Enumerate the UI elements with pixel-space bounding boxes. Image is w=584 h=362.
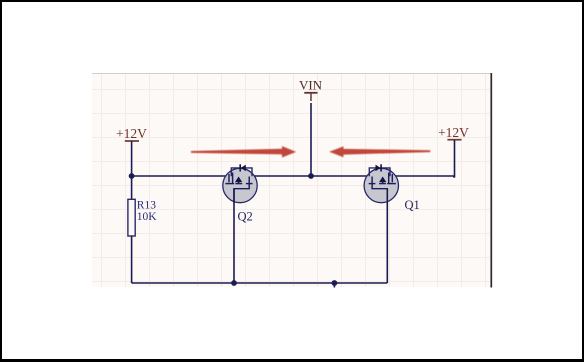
Q1 source internal lead bbox=[372, 184, 387, 203]
transistor Q1 bbox=[364, 164, 398, 203]
resistor R13 body bbox=[128, 199, 135, 236]
wire VIN vertical bbox=[310, 103, 312, 176]
Q2 body circle bbox=[223, 168, 257, 202]
transistor Q2 bbox=[223, 164, 257, 203]
sheet top edge line bbox=[92, 73, 491, 75]
outer border frame bbox=[0, 0, 584, 2]
svg-text:+12V: +12V bbox=[438, 125, 469, 140]
wire R13 top lead bbox=[131, 176, 133, 200]
Q2 substrate arrow stem bbox=[238, 182, 240, 184]
Q2 body-diode bar bbox=[239, 164, 241, 171]
Q2 source internal lead bbox=[234, 184, 249, 203]
svg-text:VIN: VIN bbox=[299, 78, 323, 93]
Q1 terminal foot right bbox=[369, 183, 376, 185]
power port +12V (left) bar bbox=[125, 140, 139, 142]
wire Q2 drain lead down bbox=[233, 189, 235, 283]
svg-text:+12V: +12V bbox=[116, 126, 147, 141]
annotation arrow pointing right bbox=[191, 146, 296, 157]
wire bottom rail bbox=[132, 282, 388, 284]
Q1 body-diode bar bbox=[380, 164, 382, 171]
Q2 terminal foot middle bbox=[235, 183, 242, 185]
Q1 body-diode triangle bbox=[376, 165, 381, 172]
Q1 channel plate bbox=[388, 173, 390, 184]
Q2 body-diode triangle bbox=[241, 165, 246, 172]
wire top rail right segment bbox=[393, 175, 455, 177]
svg-text:R13: R13 bbox=[137, 200, 156, 212]
wire stub at node below rail bbox=[333, 283, 335, 288]
Q2 terminal foot left bbox=[225, 183, 234, 185]
Q1 body circle bbox=[364, 168, 398, 202]
wire Q1 drain lead down bbox=[386, 189, 388, 283]
annotation arrow pointing left bbox=[329, 146, 430, 157]
wire top rail middle segment bbox=[252, 175, 369, 177]
wire VIN stem (upper maroon part) bbox=[310, 93, 312, 101]
power port +12V (right) bar bbox=[447, 139, 461, 141]
Q1 gate plate bbox=[391, 174, 393, 182]
junction dot at VIN / rail bbox=[308, 173, 314, 179]
Q1 body-diode box bbox=[369, 168, 390, 176]
svg-text:Q2: Q2 bbox=[238, 210, 253, 224]
wire +12V left stem bbox=[131, 141, 133, 176]
Q1 substrate arrow bbox=[379, 177, 386, 183]
Q1 terminal foot left bbox=[387, 183, 396, 185]
Q1 drain stub bbox=[371, 177, 373, 184]
svg-text:10K: 10K bbox=[137, 211, 158, 223]
Q2 gate plate bbox=[228, 174, 230, 182]
sheet right edge line bbox=[490, 73, 492, 288]
junction dot at +12V left / R13 / rail bbox=[129, 173, 135, 179]
Q2 terminal foot right bbox=[246, 183, 253, 185]
wire R13 bottom lead bbox=[131, 236, 133, 283]
Q2 body-diode box bbox=[231, 168, 252, 176]
Q1 substrate arrow stem bbox=[382, 182, 384, 184]
Q1 terminal foot middle bbox=[379, 183, 386, 185]
Q2 substrate arrow bbox=[235, 177, 242, 183]
schematic sheet grid area bbox=[92, 73, 491, 287]
junction dot at Q2 lead / bottom rail bbox=[231, 280, 237, 286]
Q2 channel plate bbox=[232, 173, 234, 184]
wire top rail left segment bbox=[132, 175, 229, 177]
junction dot on bottom rail bbox=[332, 280, 338, 286]
wire +12V right stem bbox=[453, 140, 455, 177]
Q2 drain stub bbox=[248, 177, 250, 184]
svg-text:Q1: Q1 bbox=[405, 198, 420, 212]
power port VIN bar bbox=[304, 92, 317, 94]
